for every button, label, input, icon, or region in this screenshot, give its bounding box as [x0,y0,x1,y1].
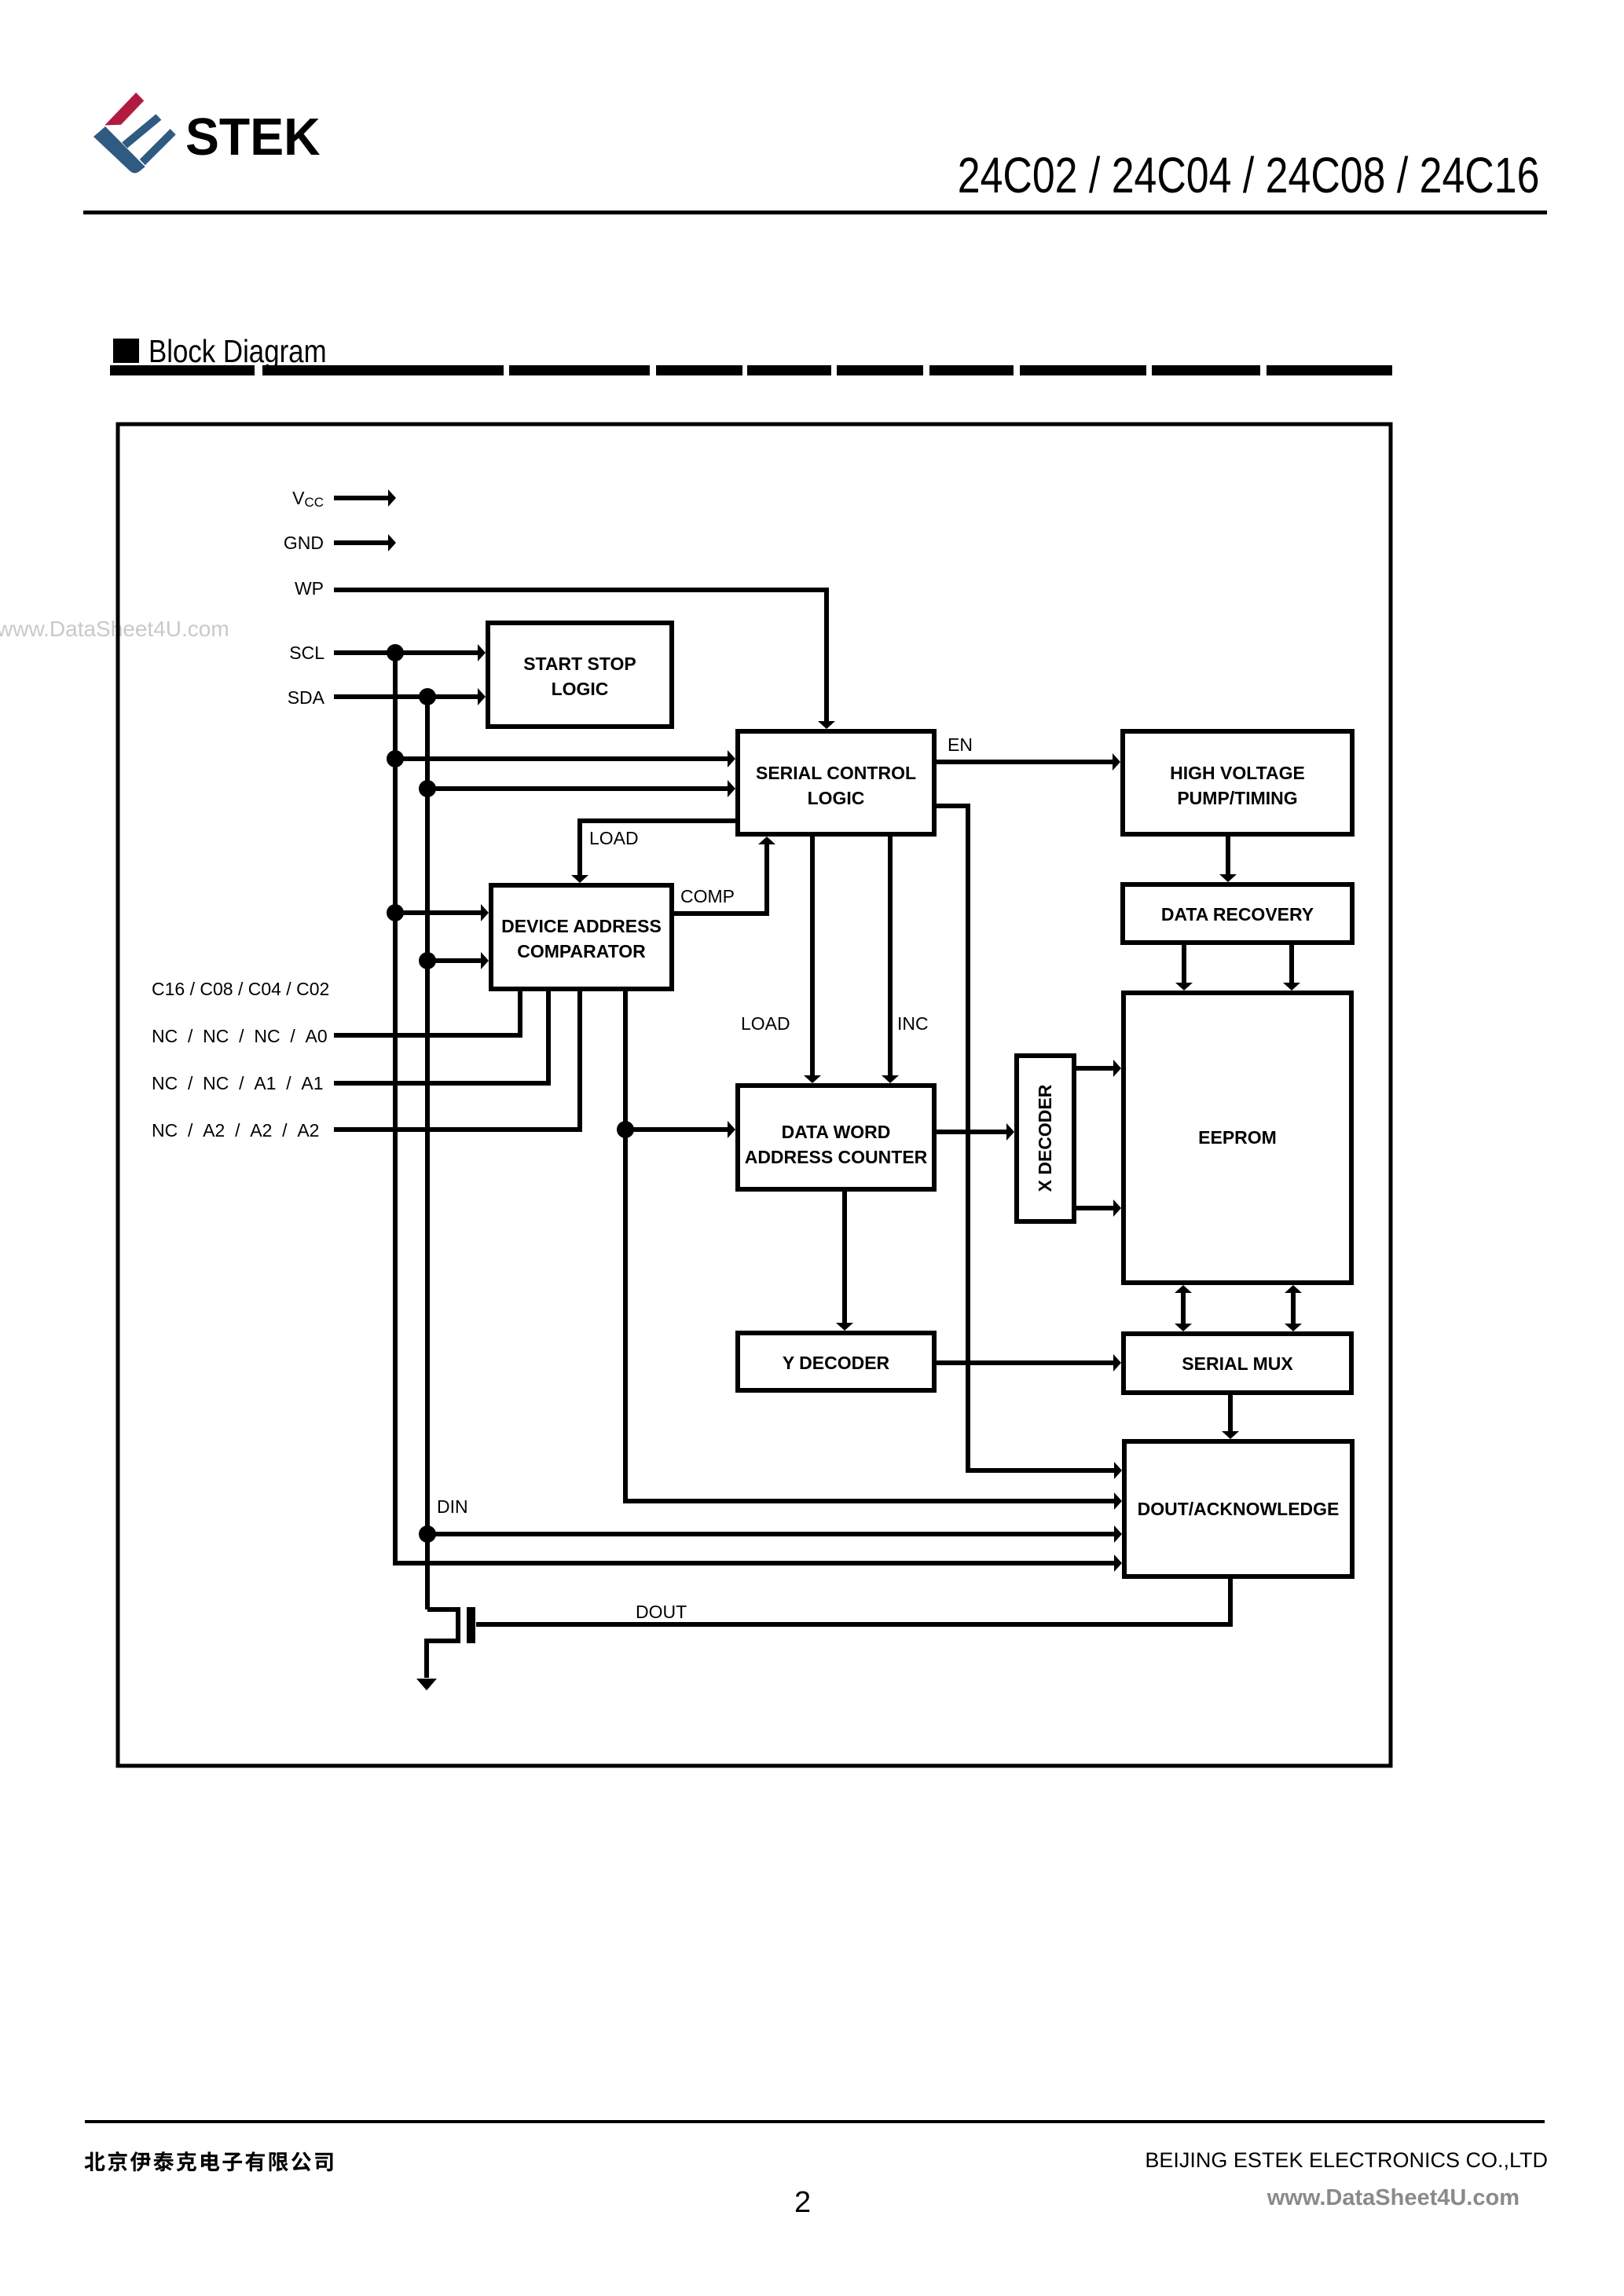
svg-text:SDA: SDA [288,687,325,708]
svg-text:LOGIC: LOGIC [808,788,865,808]
svg-text:NC / NC / A1 / A1: NC / NC / A1 / A1 [152,1073,324,1093]
svg-text:NC / A2 / A2 / A2: NC / A2 / A2 / A2 [152,1120,319,1141]
svg-text:START STOP: START STOP [523,654,636,674]
svg-text:LOAD: LOAD [741,1013,790,1034]
svg-text:Y DECODER: Y DECODER [783,1353,890,1373]
svg-text:NC / NC / NC / A0: NC / NC / NC / A0 [152,1026,328,1046]
svg-text:LOGIC: LOGIC [552,679,609,699]
svg-text:EN: EN [948,734,973,755]
svg-text:INC: INC [897,1013,929,1034]
svg-text:C16 / C08 / C04 / C02: C16 / C08 / C04 / C02 [152,979,329,999]
svg-text:SCL: SCL [289,643,324,663]
svg-text:LOAD: LOAD [589,828,639,848]
svg-text:COMPARATOR: COMPARATOR [517,941,646,961]
svg-text:DATA WORD: DATA WORD [782,1122,891,1142]
svg-text:DIN: DIN [437,1496,468,1517]
svg-text:ADDRESS COUNTER: ADDRESS COUNTER [745,1147,928,1167]
svg-text:VCC: VCC [292,488,324,510]
svg-text:WP: WP [295,578,324,599]
svg-text:DOUT: DOUT [636,1602,687,1622]
svg-text:EEPROM: EEPROM [1198,1127,1277,1148]
svg-text:HIGH VOLTAGE: HIGH VOLTAGE [1170,763,1305,783]
svg-text:DATA RECOVERY: DATA RECOVERY [1161,904,1314,925]
svg-text:SERIAL CONTROL: SERIAL CONTROL [756,763,916,783]
svg-text:DEVICE ADDRESS: DEVICE ADDRESS [501,916,662,936]
svg-text:DOUT/ACKNOWLEDGE: DOUT/ACKNOWLEDGE [1138,1499,1340,1519]
svg-text:PUMP/TIMING: PUMP/TIMING [1177,788,1297,808]
svg-text:SERIAL MUX: SERIAL MUX [1182,1353,1293,1374]
svg-text:X DECODER: X DECODER [1035,1084,1055,1192]
svg-text:GND: GND [284,533,324,553]
svg-text:COMP: COMP [680,886,735,906]
